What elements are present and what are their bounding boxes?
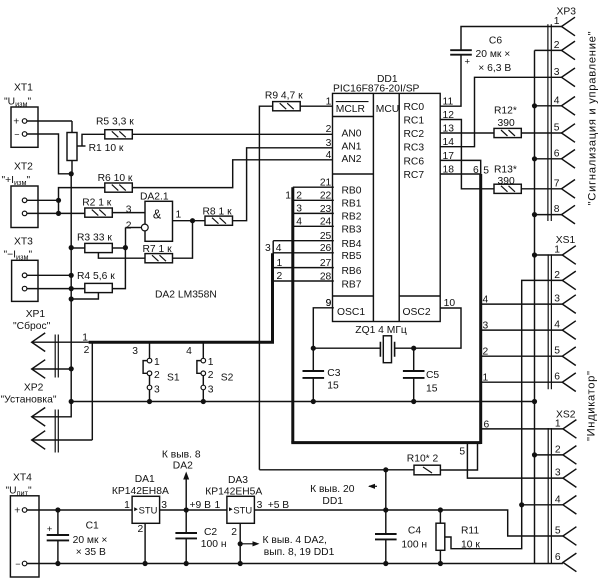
wire bbox=[413, 378, 415, 402]
svg-text:+: + bbox=[47, 524, 53, 535]
XS1 pin 3 bbox=[562, 295, 576, 314]
wire net 3 to XS1 pin4 bbox=[481, 329, 562, 331]
svg-text:MCLR: MCLR bbox=[336, 104, 365, 115]
svg-text:8: 8 bbox=[554, 204, 560, 215]
svg-text:5: 5 bbox=[555, 526, 561, 537]
wire XT3-2 to R4 bbox=[27, 288, 85, 290]
svg-text:RB2: RB2 bbox=[342, 212, 362, 223]
svg-text:&: & bbox=[153, 208, 162, 222]
svg-text:RC1: RC1 bbox=[404, 116, 425, 127]
wire ZQ1 right bbox=[395, 347, 414, 349]
junction bbox=[190, 218, 195, 223]
XP3 pin 3 bbox=[562, 68, 576, 87]
junction bbox=[532, 399, 537, 404]
svg-text:3: 3 bbox=[326, 138, 332, 149]
wire bbox=[149, 376, 151, 386]
svg-text:3: 3 bbox=[161, 500, 167, 511]
svg-text:5: 5 bbox=[483, 165, 489, 176]
svg-text:3: 3 bbox=[132, 346, 138, 357]
svg-text:4: 4 bbox=[483, 294, 489, 305]
svg-text:+: + bbox=[14, 505, 20, 516]
wire bbox=[385, 539, 387, 563]
junction bbox=[184, 507, 189, 512]
XS1 pin 2 bbox=[562, 271, 576, 290]
svg-text:4: 4 bbox=[326, 150, 332, 161]
junction bbox=[184, 561, 189, 566]
wire R3 right bbox=[112, 247, 125, 249]
junction bbox=[55, 507, 60, 512]
svg-text:RC0: RC0 bbox=[404, 102, 425, 113]
junction bbox=[438, 507, 443, 512]
svg-text:RB7: RB7 bbox=[342, 279, 362, 290]
wire bbox=[413, 348, 415, 371]
svg-text:1: 1 bbox=[555, 418, 561, 429]
wire bbox=[202, 342, 204, 358]
wire pin2 riser bbox=[125, 228, 127, 248]
svg-text:4: 4 bbox=[296, 216, 302, 227]
svg-text:−: − bbox=[15, 559, 20, 569]
svg-text:15: 15 bbox=[327, 381, 339, 392]
wire bbox=[202, 390, 204, 402]
junction bbox=[311, 399, 316, 404]
XS2 pin 2 bbox=[563, 446, 577, 465]
wire XP1 pin1 bbox=[32, 341, 89, 343]
junction bbox=[519, 502, 524, 507]
wire R9 to MCLR bbox=[300, 105, 334, 107]
wire DA3 pin2 bbox=[239, 523, 241, 563]
connector XT3 bbox=[12, 260, 38, 301]
svg-text:RC2: RC2 bbox=[404, 129, 425, 140]
wire XP2 pin1 riser bbox=[32, 402, 71, 417]
XP3 pin 8 bbox=[562, 205, 576, 224]
XP2 pin 2 bbox=[32, 431, 46, 450]
wire switch arm bbox=[197, 361, 201, 374]
wire net 6 to XS2 pin1 bbox=[481, 428, 563, 430]
wire bbox=[385, 510, 387, 534]
wire DA1 pin2 bbox=[144, 523, 146, 563]
svg-text:2: 2 bbox=[126, 221, 132, 232]
junction bbox=[238, 541, 243, 546]
svg-text:RB3: RB3 bbox=[342, 225, 362, 236]
wire XS2 pin3 to bus bbox=[467, 444, 563, 478]
svg-text:RC3: RC3 bbox=[404, 143, 425, 154]
wire common line net 2 bbox=[71, 401, 534, 403]
XS2 pin 4 bbox=[563, 496, 577, 515]
wire RB5 pin26 bbox=[273, 252, 334, 254]
svg-text:R4 5,6 к: R4 5,6 к bbox=[77, 271, 115, 282]
svg-text:4: 4 bbox=[555, 494, 561, 505]
resistor R11 (vertical trimmer) bbox=[436, 523, 445, 550]
wire thick bus A bbox=[89, 253, 273, 342]
XS2 pin 5 bbox=[563, 527, 577, 546]
wire R9 left long vertical bbox=[259, 106, 272, 470]
svg-text:RB1: RB1 bbox=[342, 199, 362, 210]
svg-text:2: 2 bbox=[326, 124, 332, 135]
wire bbox=[439, 510, 441, 523]
svg-text:3: 3 bbox=[126, 204, 132, 215]
XS1 pin 6 bbox=[562, 373, 576, 392]
resistor R10 bbox=[414, 465, 440, 475]
wire bbox=[185, 510, 187, 533]
wire RB3 pin24 bbox=[293, 225, 334, 227]
wire net 1 to XS1 pin6 bbox=[481, 381, 562, 383]
XP3 pin 2 bbox=[562, 41, 576, 60]
XS2 pin 1 bbox=[563, 420, 577, 439]
svg-text:C3: C3 bbox=[327, 368, 340, 379]
wire bbox=[312, 348, 314, 371]
wire net 2 to XS1 pin5 bbox=[481, 355, 562, 357]
wire XS1 pin2 to R11 tap bbox=[445, 280, 563, 548]
junction bbox=[69, 245, 74, 250]
svg-text:+: + bbox=[465, 57, 471, 68]
resistor R12 bbox=[494, 128, 521, 137]
svg-text:3: 3 bbox=[265, 243, 271, 254]
svg-text:−: − bbox=[14, 129, 19, 139]
svg-text:ХР2: ХР2 bbox=[24, 383, 44, 394]
wire thick bus right vertical bbox=[479, 174, 482, 444]
svg-text:2: 2 bbox=[277, 271, 283, 282]
switch S1 bbox=[132, 342, 180, 404]
wire R3 left bbox=[71, 247, 85, 249]
svg-text:1: 1 bbox=[554, 245, 560, 256]
svg-text:5: 5 bbox=[554, 123, 560, 134]
svg-text:C5: C5 bbox=[426, 370, 439, 381]
svg-text:1: 1 bbox=[176, 209, 182, 220]
junction bbox=[532, 252, 537, 257]
svg-text:1: 1 bbox=[277, 258, 283, 269]
svg-text:9: 9 bbox=[326, 298, 332, 309]
wire XP3 pin4 bbox=[535, 105, 562, 107]
wire R10 to thick bus bbox=[440, 444, 477, 470]
wire R3 tap to R7 bbox=[98, 253, 145, 259]
svg-text:1: 1 bbox=[326, 97, 332, 108]
connector XT4 bbox=[10, 496, 39, 577]
wire ZQ1 left bbox=[313, 347, 380, 349]
svg-text:DA1: DA1 bbox=[135, 474, 155, 485]
svg-text:AN1: AN1 bbox=[342, 142, 362, 153]
XP3 pin 1 bbox=[562, 17, 576, 36]
wire XP2 pin2 bbox=[32, 439, 93, 441]
wire OSC1 pin9 bbox=[313, 308, 334, 348]
junction bbox=[69, 399, 74, 404]
wire RB6 pin27 bbox=[274, 267, 334, 269]
svg-text:C2: C2 bbox=[204, 527, 217, 538]
svg-text:1: 1 bbox=[215, 500, 221, 511]
svg-text:DA2 LM358N: DA2 LM358N bbox=[155, 290, 217, 301]
XS1 pin 4 bbox=[562, 321, 576, 340]
svg-text:STU: STU bbox=[233, 505, 252, 516]
svg-text:ZQ1 4 МГц: ZQ1 4 МГц bbox=[355, 325, 407, 336]
svg-text:+: + bbox=[13, 116, 19, 127]
svg-text:"Сброс": "Сброс" bbox=[13, 320, 51, 332]
wire XT3-1 bbox=[27, 274, 71, 276]
wire bottom rail common bbox=[27, 563, 563, 565]
svg-text:20 мк ×: 20 мк × bbox=[73, 535, 108, 546]
junction bbox=[69, 171, 74, 176]
wire RB0 pin21 bbox=[293, 186, 334, 188]
svg-text:6: 6 bbox=[473, 165, 479, 176]
wire thick bus bottom rail bbox=[291, 441, 480, 444]
wire XP3 pin6 bbox=[535, 158, 562, 160]
svg-text:+9 В: +9 В bbox=[190, 500, 212, 511]
wire R2 to DA2.1 pin3 bbox=[112, 212, 145, 214]
wire bbox=[202, 376, 204, 386]
wire R1 tap bbox=[77, 145, 86, 147]
svg-text:STU: STU bbox=[139, 505, 158, 516]
svg-text:2: 2 bbox=[483, 347, 489, 358]
svg-text:2: 2 bbox=[208, 370, 214, 381]
wire R1 bottom bbox=[71, 161, 73, 174]
svg-text:6: 6 bbox=[484, 419, 490, 430]
svg-text:R3 33 к: R3 33 к bbox=[77, 233, 112, 244]
switch S2 bbox=[186, 342, 234, 404]
svg-text:RC6: RC6 bbox=[404, 156, 425, 167]
wire ground vertical net bbox=[534, 50, 536, 563]
junction bbox=[532, 212, 537, 217]
XP1 pin 2 bbox=[32, 360, 46, 379]
XT1 terminal circles bbox=[22, 119, 27, 124]
svg-text:1: 1 bbox=[124, 500, 130, 511]
wire bbox=[149, 390, 151, 402]
svg-text:S2: S2 bbox=[221, 372, 234, 383]
svg-text:6: 6 bbox=[555, 552, 561, 563]
wire R6 left down bbox=[59, 188, 105, 214]
svg-text:DA2: DA2 bbox=[173, 460, 193, 471]
wire RB2 pin23 bbox=[293, 212, 334, 214]
resistor R8 bbox=[205, 216, 233, 225]
wire +5V riser bbox=[385, 470, 387, 510]
svg-text:2: 2 bbox=[554, 40, 560, 51]
svg-text:2: 2 bbox=[231, 527, 237, 538]
wire bbox=[71, 121, 73, 133]
wire R9 net to R10 bbox=[259, 469, 414, 471]
wire R5 to AN0 bbox=[132, 133, 333, 135]
svg-text:R9 4,7 к: R9 4,7 к bbox=[265, 90, 303, 101]
junction bbox=[532, 156, 537, 161]
svg-text:3: 3 bbox=[555, 468, 561, 479]
svg-text:К выв. 20: К выв. 20 bbox=[310, 484, 355, 495]
svg-text:5: 5 bbox=[459, 447, 465, 458]
svg-text:OSC1: OSC1 bbox=[337, 307, 365, 318]
svg-text:XT1: XT1 bbox=[14, 83, 33, 94]
svg-text:MCU: MCU bbox=[376, 104, 399, 115]
wire XT2-2 to R2 bbox=[27, 212, 85, 214]
svg-text:AN2: AN2 bbox=[342, 154, 362, 165]
svg-text:S1: S1 bbox=[167, 372, 180, 383]
XS2 pin 6 bbox=[563, 553, 577, 572]
inversion bubble pin 2 bbox=[141, 224, 148, 231]
svg-text:RC7: RC7 bbox=[404, 170, 425, 181]
svg-text:7: 7 bbox=[554, 178, 560, 189]
wire XS2 pin4 bbox=[522, 504, 563, 506]
wire XP3 pin8 bbox=[535, 214, 562, 216]
resistor R13 bbox=[494, 184, 521, 193]
junction bbox=[411, 399, 416, 404]
svg-text:1: 1 bbox=[285, 190, 291, 201]
svg-text:К выв. 4 DA2,: К выв. 4 DA2, bbox=[263, 535, 327, 546]
svg-text:100 н: 100 н bbox=[401, 539, 427, 550]
XP3 pin 5 bbox=[562, 124, 576, 143]
svg-text:× 35 В: × 35 В bbox=[76, 547, 106, 558]
wire bbox=[439, 550, 441, 563]
svg-text:R10* 2: R10* 2 bbox=[407, 454, 439, 465]
wire measure common vertical bbox=[70, 174, 72, 402]
svg-text:2: 2 bbox=[154, 370, 160, 381]
svg-text:3: 3 bbox=[554, 67, 560, 78]
wire bbox=[57, 510, 59, 535]
junction bbox=[383, 467, 388, 472]
XS1 pin 5 bbox=[562, 347, 576, 366]
wire XS2 pin2 bbox=[535, 454, 563, 456]
svg-text:3: 3 bbox=[554, 294, 560, 305]
wire DA2.1 output bbox=[173, 220, 206, 222]
svg-text:3: 3 bbox=[257, 500, 263, 511]
junction bbox=[532, 103, 537, 108]
svg-text:R11: R11 bbox=[461, 526, 479, 537]
wire RC6 down bbox=[440, 160, 481, 174]
junction bbox=[56, 211, 61, 216]
wire XT2-1 bbox=[27, 199, 59, 201]
wire RB7 pin28 bbox=[274, 280, 334, 282]
junction bbox=[69, 296, 74, 301]
svg-text:1: 1 bbox=[483, 373, 489, 384]
svg-text:2: 2 bbox=[555, 444, 561, 455]
XP3 pin 4 bbox=[562, 97, 576, 116]
svg-text:"Индикатор": "Индикатор" bbox=[586, 371, 598, 441]
svg-text:"Установка": "Установка" bbox=[1, 395, 57, 406]
svg-text:1: 1 bbox=[82, 333, 88, 344]
svg-text:1: 1 bbox=[208, 357, 214, 368]
svg-text:вып. 8, 19 DD1: вып. 8, 19 DD1 bbox=[264, 547, 335, 558]
svg-text:RB6: RB6 bbox=[342, 266, 362, 277]
svg-text:4: 4 bbox=[554, 95, 560, 106]
XP1 pin 1 bbox=[32, 333, 46, 352]
svg-text:R13*: R13* bbox=[494, 164, 517, 175]
wire R6 to AN2 bbox=[132, 160, 333, 188]
svg-text:4: 4 bbox=[276, 243, 282, 254]
wire RC2 to R12 bbox=[440, 132, 494, 134]
svg-text:390: 390 bbox=[498, 118, 515, 129]
wire switch arm bbox=[143, 361, 147, 374]
svg-text:4: 4 bbox=[554, 320, 560, 331]
wire RB1 pin22 bbox=[293, 199, 334, 201]
svg-text:4: 4 bbox=[186, 346, 192, 357]
resistor R5 bbox=[105, 130, 133, 139]
junction bbox=[383, 507, 388, 512]
svg-text:3: 3 bbox=[154, 384, 160, 395]
junction bbox=[383, 561, 388, 566]
resistor R4 (trimmer) bbox=[85, 283, 113, 292]
svg-text:6: 6 bbox=[554, 372, 560, 383]
wire R5 left to R1 tap bbox=[82, 134, 105, 146]
wire XS1 pin1 bbox=[535, 254, 563, 256]
wire net2 riser bbox=[91, 344, 93, 441]
svg-text:6: 6 bbox=[554, 148, 560, 159]
wire bbox=[149, 342, 151, 358]
svg-text:ХР1: ХР1 bbox=[26, 309, 46, 320]
wire net 4 to XS1 pin3 bbox=[481, 303, 562, 305]
wire RC7 bbox=[440, 173, 481, 175]
svg-text:20 мк ×: 20 мк × bbox=[476, 49, 511, 60]
wire R8 to AN1 bbox=[233, 148, 334, 221]
wire XT1+ to R1 bbox=[27, 120, 72, 122]
wire R7 feedback bbox=[173, 221, 193, 259]
svg-text:C4: C4 bbox=[408, 526, 421, 537]
XP3 pin 7 bbox=[562, 180, 576, 199]
wire R12 to XP3 pin5 bbox=[521, 132, 561, 134]
svg-text:3: 3 bbox=[483, 320, 489, 331]
resistor R2 bbox=[85, 208, 113, 217]
wire +9V bbox=[160, 509, 227, 511]
svg-text:R2 1 к: R2 1 к bbox=[82, 198, 112, 209]
wire bbox=[185, 538, 187, 563]
capacitor C6 (polarized) bbox=[450, 50, 472, 55]
wire XP3 pin2 bbox=[535, 49, 562, 51]
junction bbox=[69, 286, 74, 291]
wire C6 to XP3 pin1 bbox=[461, 27, 562, 51]
svg-text:XT4: XT4 bbox=[13, 473, 32, 484]
wire XP1 pin2 bbox=[32, 368, 71, 370]
junction bbox=[123, 245, 128, 250]
svg-text:"Сигнализация и управление": "Сигнализация и управление" bbox=[586, 31, 598, 205]
svg-text:КР142ЕН8А: КР142ЕН8А bbox=[112, 486, 169, 497]
wire thick bus B vertical bbox=[291, 187, 294, 442]
junction bbox=[201, 399, 206, 404]
svg-text:1: 1 bbox=[554, 16, 560, 27]
svg-text:5: 5 bbox=[554, 346, 560, 357]
connector XT2 bbox=[11, 186, 38, 228]
wire bbox=[57, 540, 59, 563]
junction bbox=[411, 346, 416, 351]
wire RB4 pin25 bbox=[273, 241, 334, 253]
junction bbox=[55, 561, 60, 566]
svg-text:К выв. 8: К выв. 8 bbox=[162, 449, 201, 460]
svg-text:2: 2 bbox=[138, 524, 144, 535]
XP3 pin 6 bbox=[562, 150, 576, 169]
svg-text:2: 2 bbox=[296, 190, 302, 201]
connector XT1 bbox=[11, 107, 38, 147]
XS2 pin 3 bbox=[563, 469, 577, 488]
svg-text:1: 1 bbox=[154, 357, 160, 368]
wire +5V to XS2 pin5 bbox=[254, 510, 563, 536]
junction bbox=[143, 561, 148, 566]
wire R13 to XP3 pin7 bbox=[521, 188, 561, 190]
svg-text:OSC2: OSC2 bbox=[403, 307, 431, 318]
junction bbox=[69, 273, 74, 278]
junction bbox=[532, 452, 537, 457]
resistor R6 bbox=[105, 183, 133, 192]
wire to pin2 bbox=[126, 227, 142, 229]
wire XT1- down bbox=[27, 134, 71, 174]
svg-text:10 к: 10 к bbox=[461, 539, 480, 550]
svg-text:XT2: XT2 bbox=[14, 162, 33, 173]
resistor R3 (trimmer) bbox=[85, 243, 113, 252]
svg-text:XT3: XT3 bbox=[14, 237, 33, 248]
svg-text:× 6,3 В: × 6,3 В bbox=[478, 63, 511, 74]
svg-text:DA3: DA3 bbox=[228, 475, 248, 486]
junction bbox=[311, 346, 316, 351]
svg-text:3: 3 bbox=[208, 384, 214, 395]
junction bbox=[69, 366, 74, 371]
wire R4 right riser bbox=[112, 248, 125, 289]
svg-text:R1 10 к: R1 10 к bbox=[89, 143, 124, 154]
svg-text:100 н: 100 н bbox=[201, 539, 227, 550]
wire RC0 riser bbox=[440, 55, 461, 106]
junction bbox=[438, 561, 443, 566]
svg-text:2: 2 bbox=[84, 345, 90, 356]
svg-text:C6: C6 bbox=[489, 36, 502, 47]
XP2 pin 1 bbox=[32, 408, 46, 427]
